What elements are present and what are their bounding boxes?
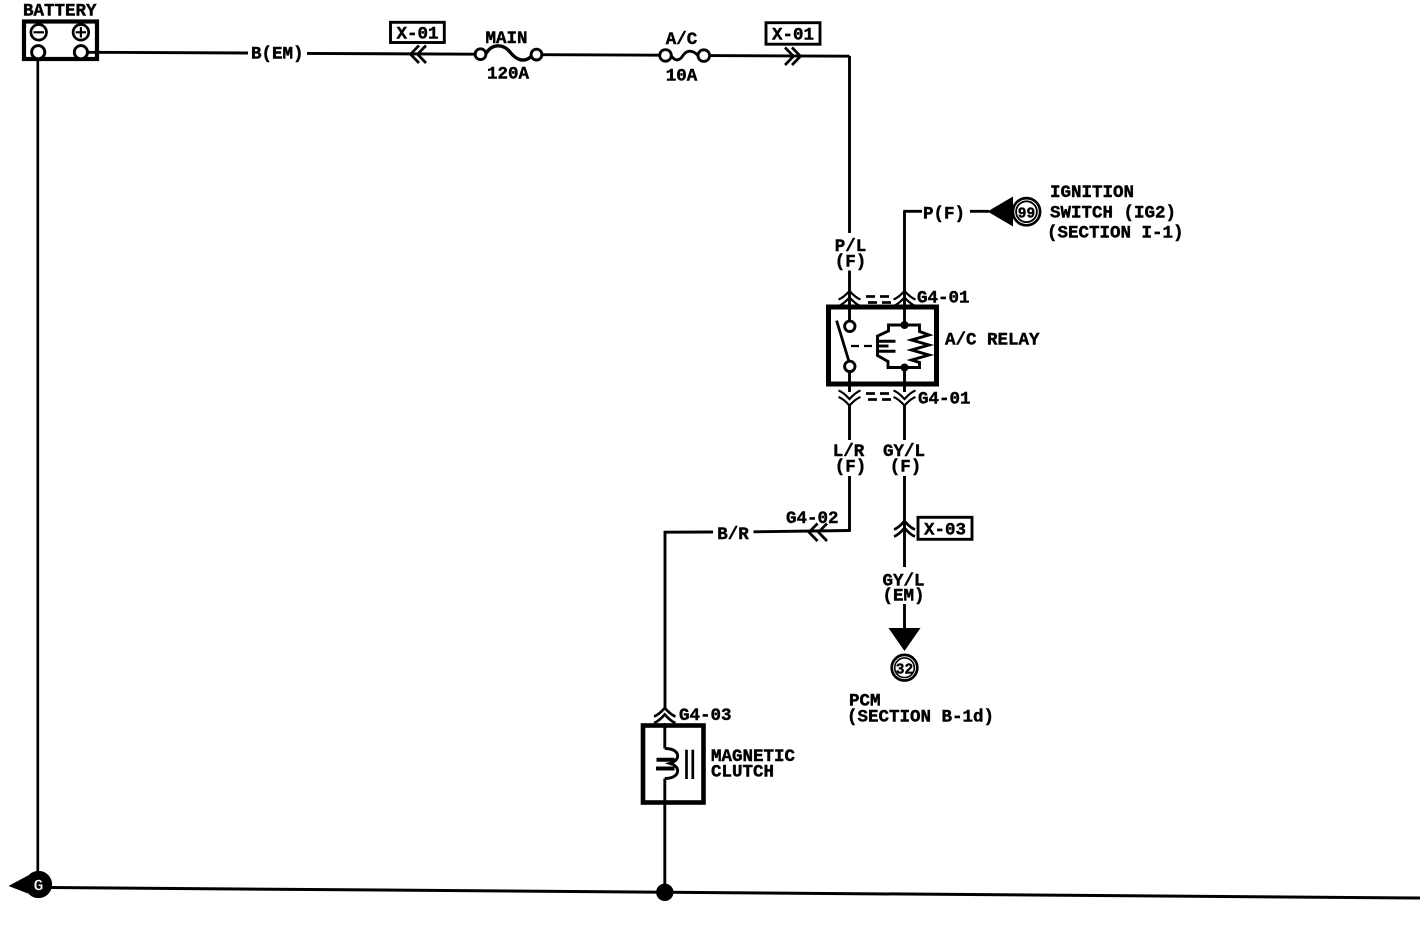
svg-text:120A: 120A [487,65,530,85]
wire [848,271,851,307]
ground bus line [50,888,1420,899]
connector X-01 left [391,22,445,63]
wire [307,52,476,56]
wire clutch to ground [663,803,666,892]
wire [903,604,906,630]
wire L/R down from relay [848,406,851,441]
connector G4-03 [654,706,732,726]
svg-text:P(F): P(F) [923,205,965,225]
svg-text:(EM): (EM) [882,587,924,607]
svg-text:B(EM): B(EM) [251,45,304,65]
PCM reference arrow 32 [847,628,994,728]
svg-text:X-01: X-01 [772,26,814,46]
svg-text:(SECTION B-1d): (SECTION B-1d) [847,708,994,728]
connector G4-01 lower [839,390,971,410]
wire [848,476,851,532]
wire [970,210,989,213]
ground symbol G [9,871,53,898]
wire down to relay [848,56,851,233]
relay switch contact [837,306,877,392]
wire [903,476,906,567]
svg-text:IGNITION: IGNITION [1050,183,1134,203]
svg-text:CLUTCH: CLUTCH [711,763,774,783]
wire GY/L down from relay [903,406,906,441]
svg-text:(F): (F) [835,458,867,478]
connector X-01 right [766,23,820,65]
svg-text:G4-01: G4-01 [918,390,971,410]
magnetic clutch box [643,726,796,803]
fuse MAIN 120A [475,29,542,85]
svg-text:10A: 10A [666,67,698,87]
relay coil [878,306,930,392]
svg-text:99: 99 [1018,207,1035,223]
svg-text:G4-02: G4-02 [786,509,839,529]
ignition switch reference arrow 99 [988,183,1184,244]
wire B(EM) battery to X-01 [88,51,249,55]
svg-text:G4-03: G4-03 [679,706,732,726]
battery [23,2,97,60]
clutch coil [656,723,693,803]
svg-text:X-03: X-03 [924,521,966,541]
wire [542,53,659,56]
wire battery negative to ground [36,59,39,874]
svg-text:SWITCH (IG2): SWITCH (IG2) [1050,204,1176,224]
connector G4-01 upper [839,289,970,309]
svg-text:B/R: B/R [717,525,749,545]
svg-text:32: 32 [896,663,913,679]
connector X-03 [894,517,972,540]
wire B/R to clutch [665,532,713,708]
svg-text:G: G [34,877,44,896]
fuse A/C 10A [660,30,710,87]
svg-text:X-01: X-01 [396,25,438,45]
svg-text:(SECTION I-1): (SECTION I-1) [1047,224,1184,244]
A/C relay box [829,307,1041,384]
junction node [656,884,673,901]
svg-text:(F): (F) [835,253,867,273]
wire [710,54,850,58]
svg-text:(F): (F) [890,458,922,478]
svg-text:BATTERY: BATTERY [23,2,97,22]
svg-text:A/C RELAY: A/C RELAY [945,331,1040,351]
svg-text:A/C: A/C [666,30,698,50]
connector G4-02 break [754,509,850,541]
wire P(F) branch to relay coil [903,211,906,306]
